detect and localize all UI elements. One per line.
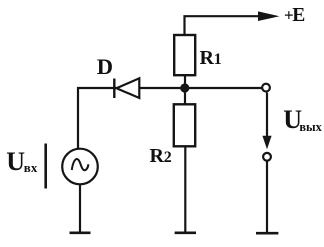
svg-text:вх: вх bbox=[24, 160, 38, 175]
svg-text:R: R bbox=[150, 145, 165, 167]
svg-text:D: D bbox=[97, 54, 113, 79]
svg-text:вых: вых bbox=[299, 120, 322, 134]
svg-text:2: 2 bbox=[164, 149, 172, 166]
svg-text:R: R bbox=[200, 47, 215, 69]
svg-text:1: 1 bbox=[214, 51, 222, 68]
svg-text:E: E bbox=[292, 5, 305, 26]
svg-text:U: U bbox=[6, 147, 25, 176]
